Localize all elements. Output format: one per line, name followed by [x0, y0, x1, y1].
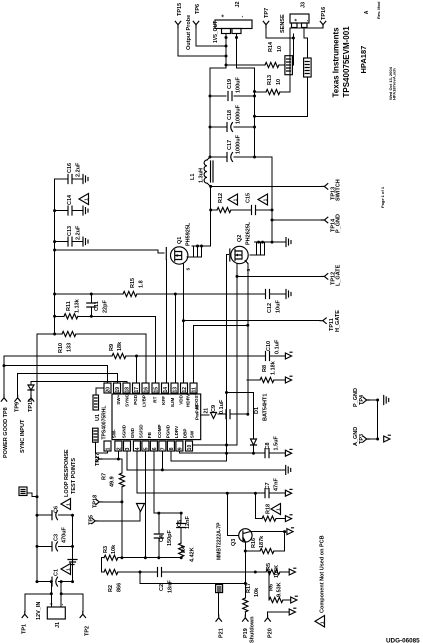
svg-text:Rev. Mod: Rev. Mod	[376, 1, 381, 19]
svg-text:R16: R16	[251, 538, 257, 548]
svg-text:1: 1	[106, 447, 112, 450]
wire to TP14	[272, 219, 322, 221]
Q2 drain wire down to pin 10 (SW)	[236, 264, 238, 446]
wire pin8 LDRV	[171, 451, 227, 461]
svg-text:Q3: Q3	[231, 539, 237, 546]
svg-text:R7: R7	[102, 473, 108, 480]
wire output row to R14	[226, 64, 265, 66]
svg-text:10: 10	[276, 79, 282, 85]
svg-text:s: s	[246, 269, 252, 272]
svg-text:GND: GND	[130, 427, 135, 438]
point P20	[268, 612, 290, 615]
svg-text:HPA187: HPA187	[359, 46, 368, 74]
input bypass rail	[54, 179, 56, 334]
svg-text:Q2: Q2	[237, 235, 243, 242]
svg-text:PGD: PGD	[133, 394, 138, 405]
svg-text:+: +	[294, 19, 300, 22]
svg-text:PH2625L: PH2625L	[246, 221, 252, 245]
svg-text:3: 3	[125, 447, 131, 450]
svg-text:C16: C16	[67, 163, 73, 173]
svg-text:16: 16	[144, 387, 150, 393]
wire pin4 SS/SD	[136, 451, 138, 493]
svg-text:C15: C15	[246, 193, 252, 203]
wire J3 minus to net box	[304, 28, 307, 59]
wire HDRV row to TP11	[183, 320, 320, 322]
svg-text:TP3: TP3	[359, 434, 365, 444]
svg-text:C8: C8	[265, 442, 271, 449]
svg-text:TEST POINTS: TEST POINTS	[71, 458, 77, 494]
svg-text:+: +	[49, 602, 55, 605]
svg-text:TP9: TP9	[15, 402, 21, 412]
svg-text:R13: R13	[267, 75, 273, 85]
svg-text:18: 18	[125, 387, 131, 393]
svg-text:BAT54HT1: BAT54HT1	[263, 394, 269, 421]
svg-text:TP6: TP6	[195, 4, 201, 14]
COMP row	[154, 512, 181, 514]
svg-text:TPS40075RHL: TPS40075RHL	[102, 406, 108, 440]
Q3 emitter down	[244, 542, 246, 598]
svg-text:19: 19	[115, 387, 121, 393]
svg-text:12V_IN: 12V_IN	[36, 602, 42, 620]
svg-text:MMBT2222A-7P: MMBT2222A-7P	[217, 522, 223, 560]
svg-text:18k: 18k	[117, 341, 123, 351]
R2 866 and C2 18nF row to R5	[101, 558, 104, 572]
svg-text:18nF: 18nF	[168, 580, 174, 593]
svg-text:RT: RT	[153, 396, 158, 402]
svg-text:11: 11	[192, 387, 198, 393]
svg-text:9.53K: 9.53K	[277, 582, 283, 597]
wire KFF row to pin 15	[91, 316, 155, 383]
svg-text:R9: R9	[109, 344, 115, 351]
wire to TP13	[211, 185, 322, 187]
svg-text:J3: J3	[301, 2, 307, 8]
SS/SD row	[137, 492, 286, 494]
svg-text:-: -	[60, 604, 66, 606]
svg-text:470uF: 470uF	[62, 526, 68, 543]
wire J2 minus pin	[237, 34, 255, 158]
wire to TP12	[237, 275, 322, 277]
test point TP2	[61, 594, 83, 612]
net box sense plus	[285, 56, 293, 75]
test point TP13 SWITCH	[322, 184, 328, 190]
svg-text:TP10: TP10	[28, 399, 34, 412]
svg-text:4: 4	[135, 447, 141, 450]
svg-text:SW+: SW+	[116, 394, 121, 404]
svg-text:A: A	[364, 10, 370, 14]
svg-text:ILIM: ILIM	[170, 398, 175, 407]
svg-text:15: 15	[154, 387, 160, 393]
svg-text:C13: C13	[67, 226, 73, 236]
wire VIN to Q1 drain	[55, 250, 164, 253]
test point TP10 with diode D2	[30, 382, 32, 385]
svg-text:Output Probe: Output Probe	[186, 15, 192, 50]
net box sense minus	[304, 58, 312, 77]
svg-text:C9: C9	[211, 405, 217, 412]
Q2 gate wire	[227, 255, 229, 462]
svg-text:2.2uF: 2.2uF	[76, 225, 82, 240]
Q3 collector to flag	[251, 531, 285, 533]
connector J1 12V_IN	[47, 607, 65, 619]
Q1 source pin comb	[187, 246, 211, 257]
svg-text:U1: U1	[95, 414, 101, 421]
switch node rail	[210, 186, 212, 246]
svg-text:2: 2	[117, 447, 123, 450]
wire TP15 to output node	[178, 28, 226, 57]
svg-text:J1: J1	[55, 622, 61, 628]
svg-text:C7: C7	[265, 482, 271, 489]
svg-text:150pF: 150pF	[167, 529, 173, 546]
wire J2 plus pin	[210, 34, 226, 158]
wire J3 plus	[292, 34, 293, 65]
svg-text:1000uF: 1000uF	[236, 104, 242, 124]
Q2 source pin comb to pgnd	[250, 242, 286, 255]
svg-text:VDD: VDD	[178, 394, 183, 404]
output cap row C17	[210, 157, 272, 242]
svg-text:SGND: SGND	[122, 424, 127, 438]
wire TP7 to J3 plus	[266, 28, 293, 39]
svg-text:1.18k: 1.18k	[271, 360, 277, 375]
wire PGD row to pin 20	[4, 366, 108, 383]
test point TP3 A_GND	[363, 436, 369, 442]
svg-text:2.2uF: 2.2uF	[76, 162, 82, 177]
svg-text:SYNC: SYNC	[124, 393, 129, 406]
svg-text:PGND: PGND	[166, 424, 171, 438]
ground on input - rail	[68, 560, 77, 565]
test point TP8 POWER GOOD	[3, 356, 5, 395]
svg-text:-: -	[240, 16, 246, 18]
svg-text:C19: C19	[227, 79, 233, 89]
U1 top-side pins 20..11	[104, 383, 111, 393]
svg-text:C12: C12	[267, 303, 273, 313]
svg-text:HPA187revA.sch: HPA187revA.sch	[392, 68, 397, 100]
test point TP14 P_GND	[322, 217, 328, 223]
svg-text:R12: R12	[218, 193, 224, 203]
svg-text:R2: R2	[108, 585, 114, 592]
svg-text:0.1uF: 0.1uF	[219, 399, 225, 414]
transistor Q3 MMBT2222A	[227, 493, 238, 535]
svg-text:C14: C14	[67, 194, 73, 205]
loop response test point TP17	[96, 456, 102, 462]
svg-text:9: 9	[178, 447, 184, 450]
svg-text:Q1: Q1	[177, 237, 183, 244]
test point TP9 SYNC INPUT	[17, 374, 19, 395]
wire pin13 VDD	[174, 294, 176, 383]
loop response test point TP18	[96, 499, 102, 505]
svg-text:10k: 10k	[254, 587, 260, 597]
net box VIN	[19, 487, 27, 496]
wire pin9 DBP row	[179, 451, 285, 453]
wire TP6 to output node	[196, 28, 226, 47]
svg-text:187k: 187k	[259, 535, 265, 548]
svg-text:R3: R3	[103, 546, 109, 553]
test point TP4 P_GND	[363, 397, 369, 403]
svg-text:TP15: TP15	[177, 3, 183, 16]
cap C10 0.1uF	[266, 352, 270, 361]
output cap row C18	[210, 126, 255, 128]
U1 bottom-side pins 1..10	[104, 441, 111, 451]
svg-text:LDRV: LDRV	[174, 425, 179, 438]
wire SYNC row to pin 19	[18, 374, 118, 383]
svg-text:HDRV: HDRV	[185, 393, 190, 407]
svg-text:133: 133	[67, 343, 73, 352]
cap C12 10uF	[266, 290, 270, 299]
svg-text:C10: C10	[266, 341, 272, 351]
svg-text:SW: SW	[190, 430, 195, 438]
svg-text:1.5uF: 1.5uF	[274, 435, 280, 450]
svg-text:Page 1 of 1: Page 1 of 1	[380, 186, 385, 208]
connector J3 (sense)	[290, 14, 309, 23]
svg-text:+: +	[221, 14, 227, 17]
svg-text:4.42K: 4.42K	[190, 547, 196, 562]
svg-text:L_GATE: L_GATE	[336, 264, 342, 286]
svg-text:TP18: TP18	[93, 495, 99, 508]
svg-text:6: 6	[152, 447, 158, 450]
row to shutdown transistor	[140, 572, 245, 583]
svg-text:TP5: TP5	[89, 515, 95, 525]
svg-text:SENSE: SENSE	[280, 14, 286, 33]
svg-text:SWITCH: SWITCH	[336, 179, 342, 201]
svg-text:DBP: DBP	[183, 428, 188, 438]
svg-text:L1: L1	[190, 174, 196, 180]
svg-text:5: 5	[144, 447, 150, 450]
svg-text:PH5925L: PH5925L	[186, 222, 192, 246]
svg-text:R10: R10	[58, 343, 64, 353]
svg-text:Component Not Used on PCB: Component Not Used on PCB	[320, 535, 326, 613]
svg-text:C1: C1	[54, 569, 60, 576]
svg-text:22pF: 22pF	[103, 300, 109, 313]
svg-text:C17: C17	[227, 140, 233, 150]
wire pin3 GND	[126, 451, 128, 470]
svg-text:R15: R15	[130, 278, 136, 288]
wire pin5 FB	[144, 451, 146, 558]
wire pin6 COMP	[153, 451, 155, 513]
net box P21	[216, 585, 223, 593]
svg-text:0.1uF: 0.1uF	[275, 339, 281, 354]
svg-text:1V5_OUT: 1V5_OUT	[213, 21, 219, 43]
svg-text:1000uF: 1000uF	[236, 134, 242, 154]
wire BOOST pin11 to C9	[194, 325, 248, 383]
svg-text:KFF: KFF	[161, 396, 166, 405]
wire pin2 row	[117, 451, 119, 459]
svg-text:Shutdown: Shutdown	[250, 616, 256, 643]
svg-text:10uF: 10uF	[276, 300, 282, 313]
svg-text:TP2: TP2	[85, 626, 91, 636]
svg-text:100uF: 100uF	[236, 76, 242, 93]
svg-text:SW-: SW-	[112, 429, 117, 438]
svg-text:P_GND: P_GND	[336, 214, 342, 233]
svg-text:10k: 10k	[111, 544, 117, 554]
svg-text:s: s	[186, 268, 192, 271]
svg-text:1.8: 1.8	[139, 280, 145, 288]
svg-text:POWER GOOD TP8: POWER GOOD TP8	[3, 407, 9, 458]
svg-text:UDG-06085: UDG-06085	[386, 638, 420, 643]
svg-text:TP7: TP7	[264, 8, 270, 18]
svg-text:P21: P21	[219, 628, 225, 638]
svg-text:P20: P20	[268, 628, 274, 638]
connector J2 (output)	[215, 20, 252, 29]
test point TP1	[25, 594, 52, 612]
wire pin10 SW row	[193, 444, 238, 446]
svg-text:TP4: TP4	[359, 394, 365, 405]
wire pin7 PGND	[161, 451, 163, 470]
test point TP12 L_GATE	[322, 274, 328, 280]
svg-text:20: 20	[106, 387, 112, 393]
svg-text:R17: R17	[246, 583, 252, 593]
svg-text:J2: J2	[235, 1, 241, 7]
mosfet Q2 PH2625L	[231, 246, 248, 263]
svg-text:21: 21	[204, 408, 210, 414]
svg-text:SS/SD: SS/SD	[139, 424, 144, 438]
test point TP5	[92, 518, 98, 524]
svg-text:LOOP RESPONSE: LOOP RESPONSE	[64, 449, 70, 497]
svg-text:49.9: 49.9	[110, 476, 116, 487]
ic U1 TPS40075RHL	[112, 394, 201, 440]
svg-text:C3: C3	[54, 534, 60, 541]
svg-text:7: 7	[161, 447, 167, 450]
svg-text:P19: P19	[243, 628, 249, 638]
svg-text:C2: C2	[159, 584, 165, 591]
wire TP16 to R13	[290, 28, 323, 93]
svg-text:TP17: TP17	[95, 453, 101, 466]
ground row sgnd	[127, 469, 286, 471]
svg-text:TP16: TP16	[321, 7, 327, 20]
mosfet Q1 PH5925L	[171, 247, 188, 264]
net box at pin 1	[93, 428, 99, 442]
Q1 source wire down to pin 12 (HDRV)	[182, 264, 184, 383]
input - rail	[72, 515, 74, 581]
VDD filter row	[55, 293, 286, 295]
output cap row C19	[210, 95, 255, 97]
input + rail	[36, 334, 38, 582]
svg-text:Texas Instruments: Texas Instruments	[332, 27, 341, 98]
node dot	[225, 55, 228, 58]
svg-text:12: 12	[182, 387, 188, 393]
test point TP11 H_GATE	[320, 318, 326, 324]
note component not used	[315, 616, 325, 628]
svg-text:D1: D1	[254, 407, 260, 414]
svg-text:C18: C18	[227, 110, 233, 120]
svg-text:PwPad: PwPad	[195, 405, 200, 420]
svg-text:SYNC INPUT: SYNC INPUT	[20, 419, 26, 453]
svg-text:TPS40075EVM-001: TPS40075EVM-001	[342, 26, 351, 98]
svg-text:14: 14	[163, 387, 169, 393]
svg-text:R11: R11	[66, 301, 72, 311]
svg-text:1.13k: 1.13k	[75, 298, 81, 313]
svg-text:8: 8	[169, 447, 175, 450]
svg-text:COMP: COMP	[157, 424, 162, 438]
svg-text:TP1: TP1	[22, 624, 28, 634]
svg-text:R14: R14	[268, 41, 274, 52]
svg-text:866: 866	[117, 583, 123, 592]
svg-text:R8: R8	[262, 365, 268, 372]
svg-text:FB: FB	[147, 431, 152, 438]
svg-text:10: 10	[277, 46, 283, 52]
wire sense minus to gnd rail	[255, 77, 308, 116]
svg-text:LVBP: LVBP	[141, 395, 146, 407]
Q1 gate wire down to pin 14	[165, 260, 167, 384]
svg-text:17: 17	[134, 387, 140, 393]
svg-text:H_GATE: H_GATE	[335, 310, 341, 332]
net box at pin 20	[93, 395, 99, 410]
svg-text:47nF: 47nF	[274, 478, 280, 491]
wire row to pin 18	[31, 382, 127, 383]
svg-text:13: 13	[173, 387, 179, 393]
